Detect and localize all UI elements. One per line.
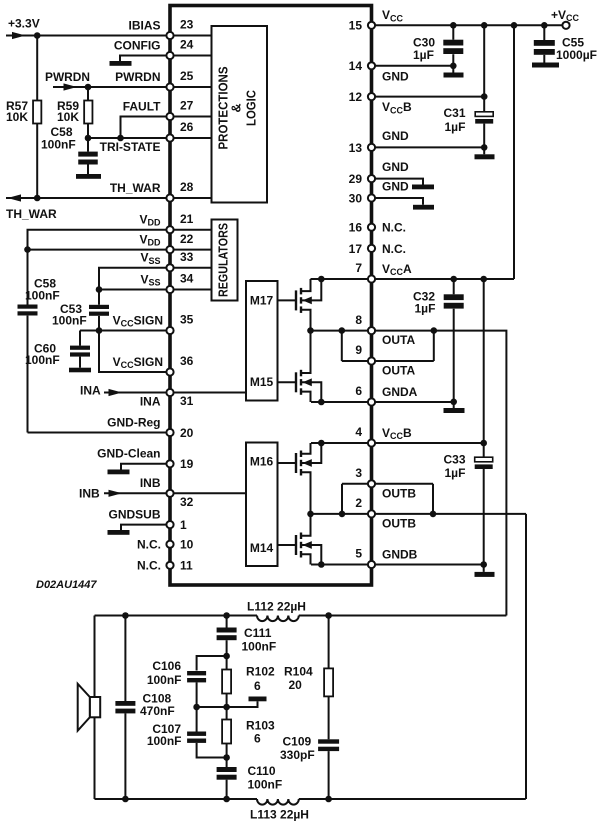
resistor R59 [84, 101, 92, 124]
terminal +VCC [562, 22, 569, 29]
svg-text:29: 29 [349, 172, 363, 186]
pin 35 [113, 313, 194, 334]
pin 11 [137, 559, 193, 573]
svg-text:330pF: 330pF [280, 748, 315, 762]
svg-text:M14: M14 [250, 541, 274, 555]
wire R57 vertical [36, 36, 38, 199]
svg-text:100nF: 100nF [25, 353, 60, 367]
svg-text:INB: INB [140, 476, 161, 490]
pin 8 [355, 313, 415, 347]
wire C33 ground stub [483, 565, 485, 572]
svg-text:PWRDN: PWRDN [45, 72, 90, 84]
wire output top rail [95, 615, 258, 617]
block driver M17/M15 [246, 281, 278, 401]
svg-text:7: 7 [355, 261, 362, 275]
wire PWRDN input line [53, 86, 170, 88]
svg-text:C111: C111 [244, 626, 272, 640]
svg-text:26: 26 [180, 120, 194, 134]
node VCCSIGN join [96, 327, 103, 334]
inductor L112 [257, 616, 299, 622]
wire FAULT branch [121, 117, 171, 139]
wire [170, 86, 212, 88]
wire GND pin14 line [372, 65, 454, 67]
resistor R102 [226, 656, 228, 670]
svg-text:22: 22 [180, 232, 194, 246]
capacitor C110 [226, 758, 228, 768]
svg-text:VCCA: VCCA [382, 262, 412, 277]
node OUTA junction [307, 327, 314, 334]
capacitor C55 [543, 25, 545, 40]
node TH_WAR / R57 [34, 195, 41, 202]
svg-text:21: 21 [180, 212, 194, 226]
node OUTB loop left [339, 511, 346, 518]
svg-text:20: 20 [180, 426, 194, 440]
node +3.3V / R57 [34, 32, 41, 39]
svg-text:GND-Reg: GND-Reg [107, 415, 160, 429]
ground GND-Clean [108, 470, 130, 475]
arrow TH_WAR output [8, 194, 22, 201]
svg-text:+3.3V: +3.3V [8, 17, 40, 31]
pin 13 [349, 129, 409, 155]
ground C32 [444, 408, 465, 413]
pin 36 [113, 354, 194, 375]
wire C107 branch bottom [197, 743, 227, 758]
node VCCA VCCB riser [480, 276, 487, 283]
wire C31 ground stub [483, 147, 485, 154]
wire GND pin30 stub [372, 198, 424, 205]
node left mid [193, 704, 200, 711]
svg-text:10: 10 [180, 538, 194, 552]
svg-text:11: 11 [180, 559, 193, 573]
svg-text:VCCSIGN: VCCSIGN [113, 355, 163, 370]
wire mid reference stub [227, 701, 258, 707]
svg-text:LOGIC: LOGIC [244, 90, 258, 126]
svg-text:33: 33 [180, 250, 194, 264]
pin 19 [97, 447, 194, 472]
svg-text:C31: C31 [444, 106, 466, 120]
svg-text:100nF: 100nF [52, 314, 87, 328]
wire GND pin13 line [372, 146, 485, 148]
node VCCA C32 [450, 276, 457, 283]
pin 12 [349, 90, 412, 115]
node R104 top [325, 612, 332, 619]
wire C58 lower to GND-Reg [27, 316, 29, 433]
wire C30 ground stub [452, 66, 454, 73]
pin 23 [128, 18, 193, 39]
wire [170, 229, 212, 231]
wire GND-Clean stub [121, 464, 170, 470]
wire INA input [104, 392, 170, 394]
wire VDD pin22 line [28, 249, 171, 251]
svg-text:N.C.: N.C. [137, 559, 161, 573]
wire C106 branch top [197, 656, 227, 671]
svg-text:IBIAS: IBIAS [128, 18, 160, 32]
ground mid reference bar [249, 697, 267, 702]
svg-text:C110: C110 [248, 764, 276, 778]
wire OUTA to output network [434, 331, 507, 616]
inductor L113 [257, 799, 299, 805]
svg-text:VCCB: VCCB [382, 100, 412, 115]
pin 25 [115, 69, 194, 90]
pin 14 [349, 59, 409, 83]
wire GND-Reg line [28, 432, 171, 434]
wire OUTA pin8 line [311, 330, 434, 332]
svg-text:2: 2 [355, 496, 362, 510]
svg-text:9: 9 [355, 343, 362, 357]
svg-text:VSS: VSS [140, 272, 160, 287]
pin 4 [355, 425, 412, 446]
wire C31 column from rail [483, 25, 485, 112]
wire VSS pin33 branch [99, 268, 170, 305]
svg-text:1: 1 [180, 518, 187, 532]
svg-text:GNDA: GNDA [382, 385, 418, 399]
transistor Q-M16 (high side B) [278, 440, 325, 514]
wire VCCA to VCCB pin4 riser [483, 279, 485, 443]
wire VCCSIGN pin35 line [80, 330, 170, 332]
svg-text:OUTB: OUTB [382, 516, 416, 530]
pin 16 [349, 221, 406, 235]
capacitor C58 (lower) [18, 305, 38, 309]
node C109 bottom [325, 796, 332, 803]
wire C32 ground stub [453, 402, 455, 408]
ground C33 [475, 572, 495, 577]
svg-text:N.C.: N.C. [382, 242, 406, 256]
svg-text:28: 28 [180, 180, 194, 194]
node VSS pin34 [96, 286, 103, 293]
svg-text:36: 36 [180, 354, 194, 368]
node PWRDN / R59 [85, 84, 92, 91]
node C108 top [122, 612, 129, 619]
wire INB input [104, 492, 170, 494]
node OUTB junction [307, 511, 314, 518]
svg-text:6: 6 [254, 732, 261, 746]
ground GNDSUB [108, 530, 130, 535]
svg-text:5: 5 [355, 547, 362, 561]
wire pin31 INA to driver [170, 392, 246, 394]
svg-text:1µF: 1µF [415, 302, 436, 316]
arrow INA [109, 389, 123, 396]
node TRI-STATE / R59 / C58 [85, 135, 92, 142]
svg-text:GNDB: GNDB [382, 547, 418, 561]
svg-text:VCCSIGN: VCCSIGN [113, 313, 163, 328]
capacitor C106 [187, 671, 206, 675]
pin 17 [349, 242, 406, 256]
node GNDA C32 [450, 399, 457, 406]
wire GND pin29 stub [372, 179, 424, 185]
block REGULATORS [212, 220, 238, 301]
svg-text:1µF: 1µF [445, 466, 466, 480]
block PROTECTIONS & LOGIC [212, 26, 268, 203]
node rail C55 [541, 22, 548, 29]
svg-text:6: 6 [355, 384, 362, 398]
svg-text:23: 23 [180, 18, 194, 32]
arrow INB [109, 490, 123, 497]
node pin4 C33 [480, 440, 487, 447]
svg-text:GND-Clean: GND-Clean [97, 447, 160, 461]
node C110 bottom [223, 796, 230, 803]
svg-text:TH_WAR: TH_WAR [6, 207, 57, 221]
svg-text:100nF: 100nF [248, 778, 283, 792]
wire GNDA pin6 line [311, 401, 454, 403]
wire mid link [197, 706, 227, 708]
pin 26 [100, 120, 194, 154]
wire C53 to VCCSIGN node [98, 316, 100, 331]
svg-text:R102: R102 [246, 665, 275, 679]
pin 10 [137, 538, 194, 552]
block driver M16/M14 [246, 443, 278, 567]
wire output bottom rail [95, 798, 258, 800]
wire [170, 35, 212, 37]
svg-text:GNDSUB: GNDSUB [108, 507, 160, 521]
svg-text:1µF: 1µF [413, 48, 434, 62]
svg-text:TRI-STATE: TRI-STATE [100, 140, 161, 154]
capacitor C32 [453, 279, 455, 294]
capacitor C58 (upper) [87, 138, 89, 152]
pin 24 [114, 38, 194, 59]
pin 21 [139, 212, 193, 233]
resistor R104 [328, 616, 330, 669]
svg-text:6: 6 [254, 679, 261, 693]
svg-text:VCCB: VCCB [382, 426, 412, 441]
arrow PWRDN input [64, 83, 78, 90]
svg-text:10K: 10K [57, 110, 79, 124]
svg-text:100nF: 100nF [242, 640, 277, 654]
node pin14 C30 [450, 63, 457, 70]
pin 28 [110, 180, 194, 201]
svg-text:100nF: 100nF [147, 673, 182, 687]
svg-text:REGULATORS: REGULATORS [217, 223, 231, 297]
ground pin29 [412, 185, 434, 190]
speaker LS [78, 684, 101, 731]
svg-text:TH_WAR: TH_WAR [110, 181, 161, 195]
svg-text:C106: C106 [152, 659, 181, 673]
ground C60 [69, 368, 91, 373]
svg-text:VDD: VDD [139, 232, 161, 247]
node VDD pin22 [24, 246, 31, 253]
svg-text:31: 31 [180, 394, 194, 408]
transistor Q-M14 (low side B) [278, 514, 325, 568]
pin 15 [349, 8, 404, 33]
transistor Q-M17 (high side A) [278, 276, 325, 331]
pin 27 [123, 99, 194, 120]
svg-text:GND: GND [382, 129, 409, 143]
pin 7 [355, 261, 412, 282]
capacitor C60 [70, 346, 90, 350]
resistor R103 [226, 707, 228, 720]
svg-text:VSS: VSS [140, 251, 160, 266]
svg-text:GND: GND [382, 69, 409, 83]
svg-text:INA: INA [140, 395, 161, 409]
svg-text:R103: R103 [246, 719, 275, 733]
svg-text:14: 14 [349, 59, 363, 73]
node pin5 C33 [480, 561, 487, 568]
svg-text:470nF: 470nF [140, 704, 175, 718]
svg-text:20: 20 [289, 678, 303, 692]
wire OUTB pin2 line [311, 513, 527, 515]
wire TH_WAR output line [6, 197, 170, 199]
pin 5 [355, 547, 417, 568]
svg-text:GND: GND [382, 160, 409, 174]
svg-text:25: 25 [180, 69, 194, 83]
pin 9 [355, 343, 415, 377]
wire VCCSIGN pin36 riser [99, 331, 170, 373]
svg-text:M17: M17 [250, 294, 274, 308]
svg-text:16: 16 [349, 221, 363, 235]
ground pin30 [413, 205, 434, 210]
node TRI-STATE / FAULT [117, 135, 124, 142]
capacitor C31 electrolytic [475, 112, 493, 117]
wire [170, 137, 212, 139]
svg-text:12: 12 [349, 90, 363, 104]
node C110 top / C107 branch [223, 754, 230, 761]
svg-text:N.C.: N.C. [137, 538, 161, 552]
wire GNDSUB stub [121, 525, 170, 530]
wire OUTB pin3 loop [342, 483, 433, 485]
svg-text:35: 35 [180, 313, 194, 327]
capacitor C108 [124, 616, 126, 702]
svg-text:24: 24 [180, 38, 194, 52]
svg-text:PROTECTIONS: PROTECTIONS [216, 67, 230, 150]
capacitor C109 [318, 739, 339, 743]
node OUTA loop left [339, 327, 346, 334]
svg-text:1µF: 1µF [445, 120, 466, 134]
wire [170, 249, 212, 251]
ground C55 [532, 63, 559, 68]
svg-text:C109: C109 [283, 735, 312, 749]
svg-text:VDD: VDD [139, 213, 161, 228]
svg-text:OUTA: OUTA [382, 364, 415, 378]
pin 33 [140, 250, 193, 271]
wire pin32 INB to driver [170, 492, 246, 494]
svg-text:8: 8 [355, 313, 362, 327]
svg-text:&: & [230, 103, 244, 112]
ground CONFIG tie bar [110, 61, 132, 66]
svg-text:19: 19 [180, 457, 194, 471]
wire VccA drop from rail [513, 25, 515, 279]
wire R59 vertical [87, 87, 89, 138]
wire C31 to pin13 line [483, 124, 485, 148]
pin 30 [349, 180, 409, 206]
svg-text:17: 17 [349, 242, 363, 256]
capacitor C33 electrolytic [483, 443, 485, 457]
wire OUTA loop [341, 331, 343, 361]
svg-text:PWRDN: PWRDN [115, 70, 160, 84]
svg-text:32: 32 [180, 495, 194, 509]
svg-text:FAULT: FAULT [123, 99, 161, 113]
resistor R57 [33, 101, 41, 124]
svg-text:OUTB: OUTB [382, 486, 416, 500]
svg-text:100nF: 100nF [25, 289, 60, 303]
wire TRI-STATE line [88, 137, 170, 139]
svg-text:C33: C33 [444, 453, 466, 467]
svg-text:D02AU1447: D02AU1447 [36, 579, 97, 591]
wire VSS pin34 line [99, 289, 170, 291]
wire C106 to mid [196, 682, 198, 707]
pin 2 [355, 496, 416, 530]
wire [170, 197, 212, 199]
node pin12 C31 [481, 93, 488, 100]
wire [170, 267, 212, 269]
wire VCCA pin7 line [311, 278, 515, 280]
wire [170, 289, 212, 291]
pin 3 [355, 466, 416, 500]
wire VCCB pin12 line [372, 96, 485, 98]
svg-text:100nF: 100nF [41, 138, 76, 152]
wire VCCB pin4 line [311, 442, 484, 444]
svg-text:M15: M15 [250, 375, 274, 389]
svg-text:4: 4 [355, 425, 362, 439]
wire [170, 116, 212, 118]
svg-text:30: 30 [349, 191, 363, 205]
wire GNDB pin5 line [311, 564, 484, 566]
svg-text:M16: M16 [250, 455, 274, 469]
ground C31 [475, 154, 495, 159]
capacitor C30 [452, 25, 454, 39]
svg-text:OUTA: OUTA [382, 333, 415, 347]
ground C58 upper [76, 174, 101, 179]
IC body outline U1 [170, 6, 372, 586]
svg-text:+VCC: +VCC [551, 8, 580, 23]
svg-text:100nF: 100nF [147, 734, 182, 748]
node C108 bottom [122, 796, 129, 803]
node rail C30 [450, 22, 457, 29]
pin 22 [139, 232, 193, 253]
arrow +3.3V input [12, 32, 26, 39]
svg-text:10K: 10K [6, 110, 28, 124]
node OUTA loop right [431, 327, 438, 334]
wire [170, 55, 212, 57]
wire C33 to pin5 line [483, 469, 485, 565]
svg-text:N.C.: N.C. [382, 221, 406, 235]
svg-text:13: 13 [349, 141, 363, 155]
svg-text:1000µF: 1000µF [556, 48, 597, 62]
node rail C31 column [481, 22, 488, 29]
ground C30 [444, 73, 464, 78]
capacitor C53 [89, 305, 109, 309]
transistor Q-M15 (low side A) [278, 331, 325, 406]
svg-text:VCC: VCC [382, 8, 404, 23]
wire CONFIG stub [120, 56, 170, 62]
node mid R102/R103 [223, 704, 230, 711]
svg-text:34: 34 [180, 272, 194, 286]
pin 1 [108, 507, 187, 532]
pin 20 [107, 415, 194, 440]
node C111 top [223, 612, 230, 619]
svg-text:INA: INA [80, 384, 101, 398]
capacitor C111 [226, 616, 228, 628]
pin 31 [140, 389, 194, 409]
wire +3.3V input line [6, 35, 170, 37]
svg-text:15: 15 [349, 19, 363, 33]
svg-text:L113 22µH: L113 22µH [250, 808, 309, 822]
svg-text:27: 27 [180, 99, 194, 113]
capacitor C107 [196, 707, 198, 732]
wire OUTB to output network [525, 514, 527, 799]
wire C60 to ground [79, 357, 81, 368]
node pin13 C31 [481, 144, 488, 151]
pin 32 [140, 476, 194, 509]
wire VDD pin21 branch [28, 230, 171, 305]
svg-text:INB: INB [79, 487, 100, 501]
pin 6 [355, 384, 417, 405]
svg-text:3: 3 [355, 466, 362, 480]
pin 34 [140, 272, 193, 293]
node R102 top / C106 branch [223, 653, 230, 660]
wire VCC rail [372, 24, 563, 26]
node rail VccA drop [511, 22, 518, 29]
node OUTB loop right [430, 511, 437, 518]
svg-text:CONFIG: CONFIG [114, 38, 161, 52]
